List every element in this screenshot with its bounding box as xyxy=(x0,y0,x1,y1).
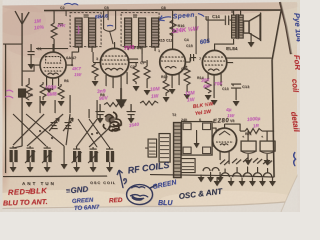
schematic border right line xyxy=(272,11,281,177)
horizontal resistor R13 xyxy=(140,101,158,105)
wire EL84 to frame xyxy=(227,57,272,59)
osc coil unit 1 xyxy=(72,147,82,167)
mains transformer core xyxy=(174,123,182,178)
capacitor C14 xyxy=(206,16,232,26)
crossing wires osc coils xyxy=(76,100,110,147)
wire antenna down to coil xyxy=(13,146,22,148)
tube V2 EF89 envelope xyxy=(93,42,129,88)
wires transformer to EZ80 xyxy=(212,128,216,146)
ground under C16 xyxy=(264,160,271,165)
resistor R9 xyxy=(133,66,139,84)
antenna coupling coil xyxy=(19,44,26,146)
padder capacitor Cb xyxy=(127,104,136,118)
IF transformer T2 can xyxy=(121,13,159,55)
node dots coil matrix xyxy=(44,129,46,131)
osc coil unit 3 xyxy=(106,147,114,167)
ground under R18 xyxy=(205,95,212,100)
red note BLK Yel xyxy=(192,100,215,117)
antenna tuning coil unit 2 xyxy=(25,146,35,167)
ground under R1 xyxy=(26,102,33,107)
speaker arrow line xyxy=(159,16,171,21)
junction dots xyxy=(39,130,41,132)
osc coil unit 2 xyxy=(88,147,98,167)
IF transformer T1 can xyxy=(70,13,101,53)
heater winding box xyxy=(181,159,195,173)
resistor R4 xyxy=(40,82,46,100)
pink note 3n9 xyxy=(97,88,109,102)
torn page corner edge xyxy=(280,2,291,54)
pink note 1M xyxy=(34,18,45,31)
B+ rail xyxy=(225,124,275,131)
ground under R11 xyxy=(144,90,151,95)
arrow in secondary xyxy=(194,143,200,148)
loudspeaker xyxy=(244,13,261,43)
antenna tuning coil unit 3 xyxy=(42,146,52,167)
tube V3 EBC81 envelope xyxy=(160,11,190,89)
tube V4 EL84 envelope xyxy=(202,39,233,98)
grid capacitor C3 xyxy=(28,44,35,64)
wire V1 anode xyxy=(72,52,79,65)
paper sheet xyxy=(2,0,297,206)
padder capacitor Ca xyxy=(96,104,105,118)
note GREEN TO 6AN7 xyxy=(72,197,100,212)
ground under R7 xyxy=(92,81,99,86)
resistor R5 xyxy=(51,10,57,52)
screen capacitor C7 xyxy=(129,59,138,66)
tube V1 6AN7 envelope xyxy=(34,44,72,90)
ground under R14 xyxy=(184,94,191,99)
ground under C3 xyxy=(28,64,35,69)
electrolytic C15 xyxy=(241,131,256,160)
wire IF1 secondary drop xyxy=(92,52,94,62)
circled colour code note xyxy=(127,185,158,205)
small refs along top xyxy=(37,6,252,136)
pink note 4K7 xyxy=(71,66,82,78)
pink note 4u xyxy=(225,107,235,119)
crossing wires ant coils xyxy=(13,95,70,146)
resistor R18 xyxy=(205,80,211,93)
schematic border top line xyxy=(44,9,282,12)
resistor R10 xyxy=(170,20,176,36)
trimmer capacitor Ta xyxy=(49,118,59,131)
resistor R1 xyxy=(26,78,32,100)
ground under V1 pin xyxy=(46,88,53,93)
resistor R11 xyxy=(144,60,150,88)
resistor R7 xyxy=(92,62,98,80)
rectifier EZ80 envelope xyxy=(213,124,237,164)
antenna xyxy=(15,11,29,44)
pink note 30K xyxy=(185,90,196,103)
pink note 10M xyxy=(150,86,161,100)
trimmer capacitor Tb xyxy=(63,118,73,131)
big ground arrow under V2 xyxy=(117,88,125,107)
transformer secondary box xyxy=(182,122,213,156)
bottom bracket line left xyxy=(3,175,107,178)
ground under R9 xyxy=(133,86,140,91)
wire IFT2 to V3 xyxy=(142,54,146,62)
speaker ground xyxy=(248,42,255,47)
ground under R4 xyxy=(40,101,47,106)
resistor R12 xyxy=(163,80,169,96)
electrolytic C16 xyxy=(260,131,275,160)
antenna tuning coil unit 4 xyxy=(63,146,65,164)
coupling capacitor C12 xyxy=(190,54,196,62)
ground under R6 xyxy=(58,101,65,106)
antenna tuning coil unit 1 xyxy=(10,146,18,167)
heater chain right xyxy=(217,158,272,182)
transformer primary winding xyxy=(159,134,170,163)
heater chain grounds xyxy=(214,181,221,186)
heater chain left xyxy=(201,168,220,178)
node junction A xyxy=(71,64,73,66)
bottom line right section xyxy=(150,175,274,178)
wire top feeds xyxy=(66,10,232,54)
AGC bus wire left xyxy=(5,44,7,173)
horizontal resistor R8 xyxy=(104,103,124,107)
ground under V3 xyxy=(169,89,176,94)
resistor R14 xyxy=(184,66,190,92)
ground under R12 xyxy=(163,97,170,102)
oscillator coil box xyxy=(145,139,157,157)
wire left horizontal xyxy=(3,43,22,45)
arrow to coils xyxy=(117,170,126,188)
resistor R6 xyxy=(58,84,64,99)
ground under C13 xyxy=(233,101,240,106)
smoothing resistor R20 xyxy=(245,129,262,134)
ground under V4 cathode xyxy=(211,100,218,105)
scribbled-out marks xyxy=(103,112,121,131)
ground under C15 xyxy=(245,160,252,165)
capacitor C13 xyxy=(231,84,241,100)
wire V1 to AGC xyxy=(22,65,34,71)
output transformer xyxy=(232,10,244,39)
pink note 100p xyxy=(45,84,57,98)
